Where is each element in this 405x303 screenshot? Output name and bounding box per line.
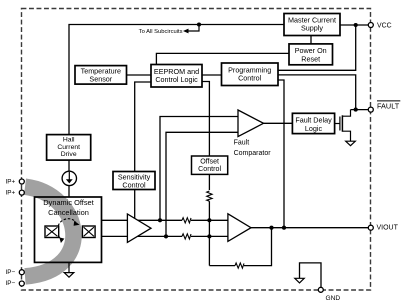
svg-text:Power On: Power On	[295, 46, 327, 55]
junction on supply rail	[197, 22, 201, 26]
block Sensitivity Control	[113, 172, 155, 190]
resistor R1 (offset injection, vertical)	[207, 191, 212, 201]
wire Master Current Supply to Power On Reset	[310, 36, 312, 44]
primary current path arrow (gray) from IP+ to IP-	[25, 187, 73, 277]
svg-text:VIOUT: VIOUT	[377, 224, 399, 231]
junction node B / offset leg	[207, 234, 211, 238]
pin IP+ upper	[6, 178, 25, 185]
svg-text:Supply: Supply	[301, 24, 323, 33]
svg-text:IP−: IP−	[6, 269, 16, 276]
wire EEPROM to Programming Control	[202, 74, 222, 76]
svg-text:Offset: Offset	[200, 157, 219, 165]
junction node A / comparator tap	[158, 218, 162, 222]
mixer/chopper right (X box)	[82, 226, 95, 238]
svg-text:Control: Control	[122, 180, 146, 189]
wire Offset Control to resistor R1	[208, 174, 210, 190]
svg-text:FAULT: FAULT	[377, 102, 400, 111]
pin VCC	[368, 23, 391, 30]
transistor Q1 (open-drain fault output)	[335, 110, 351, 142]
wire current source to Dynamic Offset Cancellation	[68, 185, 70, 197]
wire Hall Current Drive to current source	[68, 160, 70, 172]
junction output / feedback	[269, 226, 273, 230]
block Offset Control	[192, 156, 228, 174]
svg-text:Logic: Logic	[305, 124, 323, 133]
block Temperature Sensor	[75, 66, 127, 85]
op-amp A2 (output buffer)	[228, 214, 251, 242]
wire FAULT line to pin	[351, 109, 371, 111]
junction output / programming tap	[282, 226, 286, 230]
pin GND	[318, 287, 340, 302]
svg-text:Dynamic Offset: Dynamic Offset	[43, 198, 93, 207]
svg-text:Fault: Fault	[234, 140, 250, 147]
mixer/chopper left (X box)	[45, 226, 59, 238]
resistor R2 (node A series)	[182, 218, 191, 223]
junction node B / comparator tap	[164, 234, 168, 238]
junction on FAULT line	[354, 108, 358, 112]
svg-text:VCC: VCC	[377, 23, 392, 30]
wire node B to op-amp A2	[191, 235, 228, 237]
ground symbol near GND pin	[295, 278, 304, 283]
pin IP+ lower	[6, 189, 25, 196]
current source I1 (hall bias)	[62, 171, 76, 185]
wire supply rail (Master Current Supply to Hall Current Drive)	[69, 25, 284, 135]
svg-text:Control: Control	[198, 165, 221, 173]
svg-text:GND: GND	[326, 295, 341, 302]
block Power On Reset	[289, 44, 333, 65]
block EEPROM and Control Logic	[151, 65, 202, 88]
op-amp A1 (front-end amplifier)	[127, 214, 151, 242]
ground symbol under transistor Q1	[346, 141, 356, 146]
svg-text:Current: Current	[57, 144, 80, 151]
svg-text:Control Logic: Control Logic	[155, 75, 198, 84]
wire op-amp A2 output to VIOUT pin	[251, 227, 371, 229]
wire node B (lower signal line)	[102, 235, 183, 237]
op-amp U1 fault comparator	[238, 110, 264, 137]
chopping rotation dashed arrow (top arc)	[58, 219, 79, 226]
svg-text:Hall: Hall	[63, 136, 75, 143]
chopping rotation dashed arrow (bottom arc)	[59, 236, 65, 244]
pin VIOUT	[368, 224, 398, 231]
svg-text:Comparator: Comparator	[234, 150, 272, 157]
wire R1 down through nodes A and B to feedback	[208, 201, 210, 265]
pin IP- lower	[6, 280, 25, 287]
wire fault comparator output to Fault Delay Logic	[264, 122, 293, 124]
wire Master Current Supply to VCC pin	[340, 24, 371, 26]
ground symbol under Dynamic Offset Cancellation	[64, 262, 74, 277]
wire node A (upper signal line)	[102, 219, 183, 221]
svg-text:Control: Control	[238, 74, 262, 83]
wire Temperature Sensor to EEPROM	[127, 74, 152, 76]
wire EEPROM to Offset Control	[202, 82, 209, 157]
junction on VCC wire	[354, 23, 358, 27]
svg-text:IP+: IP+	[6, 189, 16, 196]
svg-text:To All Subcircuits: To All Subcircuits	[139, 29, 183, 35]
block Fault Delay Logic	[292, 113, 334, 133]
wire fault comparator + input from node A	[160, 117, 238, 221]
svg-text:Drive: Drive	[61, 151, 77, 158]
pin FAULT (active low, overline)	[368, 101, 400, 112]
wire feedback bottom left segment	[209, 265, 235, 267]
block Master Current Supply	[284, 14, 340, 36]
wire node A to op-amp A2	[191, 219, 228, 221]
resistor R3 (node B series)	[182, 234, 191, 239]
wire Programming Control down to output line	[278, 80, 284, 228]
svg-text:Reset: Reset	[301, 55, 320, 64]
wire fault comparator - input from node B	[166, 132, 238, 236]
wire EEPROM through Sensitivity Control to op-amp A1	[135, 82, 151, 220]
label Fault Comparator	[234, 140, 272, 158]
svg-text:IP+: IP+	[6, 178, 16, 185]
wire Power On Reset to EEPROM top	[156, 53, 289, 64]
pin IP- upper	[6, 269, 25, 276]
block Hall Current Drive	[47, 135, 91, 161]
wire GND pin hookup	[300, 263, 322, 290]
svg-text:Sensor: Sensor	[89, 75, 112, 84]
wire Programming Control to FAULT line	[278, 75, 356, 110]
junction node A / offset leg	[207, 218, 211, 222]
wire feedback up to output node	[244, 228, 272, 266]
wire VCC rail down to Programming Control	[278, 25, 356, 70]
svg-text:Cancellation: Cancellation	[48, 208, 89, 217]
block Programming Control	[222, 63, 279, 86]
wire To-All-Subcircuits stub with arrowhead	[183, 25, 199, 34]
block Dynamic Offset Cancellation	[35, 197, 102, 262]
resistor R4 (feedback)	[235, 263, 244, 268]
svg-text:IP−: IP−	[6, 280, 16, 287]
